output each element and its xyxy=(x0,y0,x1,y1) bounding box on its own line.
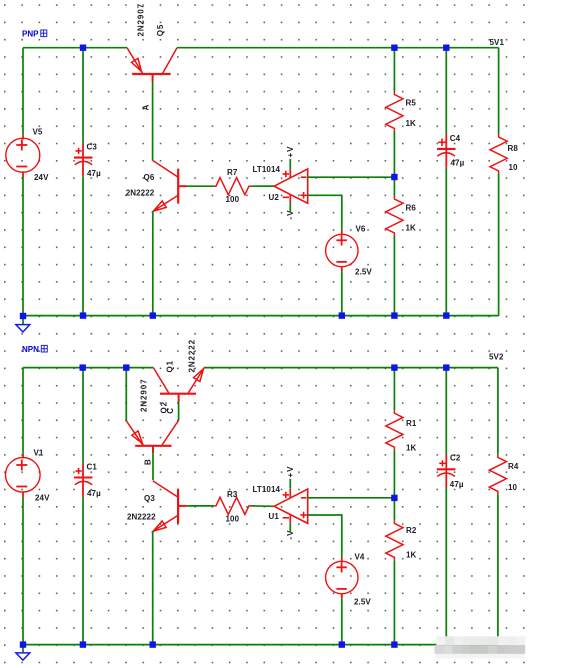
pin U1 V- stub xyxy=(289,515,291,523)
wire node B xyxy=(152,453,154,480)
transistor Q1 xyxy=(153,368,204,402)
svg-text:100: 100 xyxy=(226,515,240,524)
svg-text:2.5V: 2.5V xyxy=(354,598,371,607)
wire V5 bottom xyxy=(22,178,24,316)
junction divider node xyxy=(391,174,397,180)
wire R1 bottom xyxy=(393,450,395,498)
svg-text:100: 100 xyxy=(226,195,240,204)
capacitor C4 xyxy=(437,134,456,168)
wire R5 bottom xyxy=(393,132,395,178)
svg-text:U1: U1 xyxy=(269,512,280,521)
wire node C xyxy=(178,402,180,421)
svg-text:R6: R6 xyxy=(406,204,417,213)
ground symbol top section xyxy=(16,325,30,332)
svg-text:47µ: 47µ xyxy=(450,480,464,489)
wire Q6 base to R7 xyxy=(187,185,214,187)
svg-text:NPN: NPN xyxy=(22,345,39,354)
pin U1 V+ stub xyxy=(289,489,291,498)
wire C1 top xyxy=(82,368,84,464)
svg-text:Q5: Q5 xyxy=(156,24,165,36)
svg-text:24V: 24V xyxy=(34,173,49,182)
wire R2 top xyxy=(393,498,395,521)
wire V6 to ground rail xyxy=(341,271,343,316)
wire U1 inverting input to divider xyxy=(308,497,395,499)
pin U2 V- stub xyxy=(289,195,291,204)
wire U1 V- xyxy=(289,523,291,532)
svg-text:1K: 1K xyxy=(406,224,417,233)
wire ground stub bottom xyxy=(22,645,24,653)
wire R8 top xyxy=(498,48,500,134)
wire R8 bottom xyxy=(498,174,500,316)
svg-text:V4: V4 xyxy=(355,553,365,562)
wire Q2 emitter from rail xyxy=(125,368,127,421)
svg-text:V5: V5 xyxy=(33,128,43,137)
wire C3 bottom xyxy=(82,176,84,316)
watermark blur patch row 2 xyxy=(435,645,444,654)
wire C2 bottom xyxy=(445,488,447,638)
svg-text:1K: 1K xyxy=(406,551,417,560)
pin U2 V+ stub xyxy=(289,169,291,178)
wire C4 top xyxy=(445,48,447,134)
wire rail right (5V2 out) xyxy=(204,367,498,369)
wire C4 bottom xyxy=(445,168,447,316)
junction rail C1 column xyxy=(80,364,86,370)
resistor R8 xyxy=(490,134,507,174)
capacitor C1 xyxy=(74,463,93,497)
svg-text:R4: R4 xyxy=(508,462,519,471)
svg-text:U2: U2 xyxy=(269,193,280,202)
svg-text:2N2907: 2N2907 xyxy=(137,3,146,36)
svg-text:C2: C2 xyxy=(450,454,461,463)
wire ground rail top section xyxy=(23,315,499,317)
junction on top rail at C3 column xyxy=(80,45,86,51)
svg-text:R2: R2 xyxy=(406,526,417,535)
voltage source V6 xyxy=(326,230,358,271)
junction rail R1 column xyxy=(391,364,397,370)
wire Q3 base to R3 xyxy=(187,505,214,507)
resistor R4 xyxy=(489,454,506,494)
junction ground rail R6 xyxy=(391,312,397,318)
wire ground stub xyxy=(22,316,24,325)
wire R2 bottom xyxy=(393,560,395,645)
junction bottom rail R2 xyxy=(391,641,397,647)
svg-text:Q6: Q6 xyxy=(144,173,155,182)
svg-text:5V2: 5V2 xyxy=(489,353,504,362)
ground symbol bottom section xyxy=(16,653,30,660)
wire V1 top xyxy=(22,368,24,454)
svg-text:10: 10 xyxy=(509,163,519,172)
wire U1 non-inverting input xyxy=(308,515,342,557)
wire U1 V+ xyxy=(289,479,291,489)
junction rail Q2 emitter column xyxy=(123,364,129,370)
wire V4 to ground rail xyxy=(341,598,343,645)
svg-text:1K: 1K xyxy=(406,444,417,453)
wire C1 bottom xyxy=(82,497,84,645)
svg-text:PNP: PNP xyxy=(22,30,39,39)
junction on top rail at R5 column xyxy=(391,45,397,51)
wire R3 to U1 output xyxy=(252,505,275,507)
capacitor C2 xyxy=(437,454,456,487)
svg-text:A: A xyxy=(142,104,151,111)
junction ground rail V6 xyxy=(339,312,345,318)
svg-text:Q1: Q1 xyxy=(166,360,175,372)
wire rail left (24V in) xyxy=(23,367,153,369)
voltage source V5 xyxy=(6,135,40,177)
voltage source V1 xyxy=(6,454,41,498)
transistor Q3 xyxy=(153,481,187,532)
resistor R1 xyxy=(386,410,403,450)
junction ground rail C4 xyxy=(443,312,449,318)
wire V1 bottom xyxy=(22,498,24,645)
junction ground rail corner xyxy=(20,313,26,319)
svg-text:R3: R3 xyxy=(227,490,238,499)
svg-text:47µ: 47µ xyxy=(87,169,101,178)
wire C2 top xyxy=(445,368,447,455)
svg-text:1K: 1K xyxy=(406,119,417,128)
wire top rail left (24V in) xyxy=(23,47,127,49)
svg-text:C4: C4 xyxy=(450,134,461,143)
svg-text:+V: +V xyxy=(286,466,295,478)
svg-text:2N2222: 2N2222 xyxy=(127,513,156,522)
transistor Q5 xyxy=(127,48,177,82)
svg-text:-V: -V xyxy=(286,210,295,220)
wire Q6 emitter to ground rail xyxy=(152,211,154,316)
junction bottom rail V1 xyxy=(20,641,26,647)
capacitor C3 xyxy=(74,143,93,176)
transistor Q6 xyxy=(152,160,186,211)
svg-text:R8: R8 xyxy=(508,144,519,153)
wire U2 inverting input to divider xyxy=(308,176,395,178)
svg-text:R7: R7 xyxy=(227,168,238,177)
svg-text:LT1014: LT1014 xyxy=(253,165,281,174)
resistor R5 xyxy=(386,92,403,132)
wire R6 bottom xyxy=(393,236,395,316)
transistor Q2 xyxy=(126,420,178,453)
svg-text:Q3: Q3 xyxy=(144,494,155,503)
svg-text:R5: R5 xyxy=(406,99,417,108)
svg-text:-V: -V xyxy=(286,530,295,540)
resistor R6 xyxy=(386,196,403,236)
resistor R7 xyxy=(214,178,252,195)
watermark blur patch row 1 xyxy=(436,636,445,645)
junction bottom rail V4 xyxy=(339,641,345,647)
junction ground rail C3 xyxy=(80,312,86,318)
resistor R2 xyxy=(386,520,403,560)
wire V5 top xyxy=(22,48,24,136)
svg-text:24V: 24V xyxy=(35,494,50,503)
svg-text:10: 10 xyxy=(508,483,518,492)
wire U2 V- xyxy=(289,203,291,212)
junction ground rail Q6 emitter xyxy=(150,312,156,318)
wire R7 to U2 output xyxy=(252,185,275,187)
wire C3 top xyxy=(82,48,84,144)
svg-text:47µ: 47µ xyxy=(451,159,465,168)
svg-text:47µ: 47µ xyxy=(87,489,101,498)
junction bottom rail Q3 emitter xyxy=(150,641,156,647)
svg-text:2N2222: 2N2222 xyxy=(188,339,197,372)
junction on top rail at C4 column xyxy=(443,45,449,51)
wire R4 bottom xyxy=(497,494,499,637)
wire R6 top xyxy=(393,177,395,196)
svg-text:B: B xyxy=(144,458,153,465)
junction rail C2 column xyxy=(443,364,449,370)
wire R4 top xyxy=(497,368,499,455)
svg-text:Q2: Q2 xyxy=(160,401,169,413)
wire ground rail bottom section xyxy=(23,644,498,646)
junction divider node R1 R2 xyxy=(391,495,397,501)
svg-text:5V1: 5V1 xyxy=(490,38,505,47)
svg-text:C1: C1 xyxy=(87,463,98,472)
svg-text:+V: +V xyxy=(286,146,295,158)
svg-text:LT1014: LT1014 xyxy=(253,485,281,494)
wire R5 top xyxy=(393,48,395,92)
svg-text:R1: R1 xyxy=(406,419,417,428)
resistor R3 xyxy=(214,497,252,514)
junction bottom rail C1 xyxy=(80,641,86,647)
svg-text:C3: C3 xyxy=(87,143,98,152)
wire U2 non-inverting input xyxy=(308,195,342,230)
wire U2 V+ xyxy=(289,159,291,169)
svg-text:2N2222: 2N2222 xyxy=(126,189,155,198)
svg-text:V6: V6 xyxy=(356,225,366,234)
wire top rail right (5V1 out) xyxy=(177,47,499,49)
svg-text:2N2907: 2N2907 xyxy=(140,379,149,412)
voltage source V4 xyxy=(326,557,358,598)
wire R1 top xyxy=(393,368,395,411)
svg-text:2.5V: 2.5V xyxy=(355,268,372,277)
op-amp U1 xyxy=(274,489,308,523)
op-amp U2 xyxy=(274,169,308,203)
watermark blur patch row 3 xyxy=(436,654,524,659)
svg-text:V1: V1 xyxy=(34,449,44,458)
wire node A vertical xyxy=(152,82,154,161)
wire Q3 emitter to ground rail xyxy=(152,531,154,645)
